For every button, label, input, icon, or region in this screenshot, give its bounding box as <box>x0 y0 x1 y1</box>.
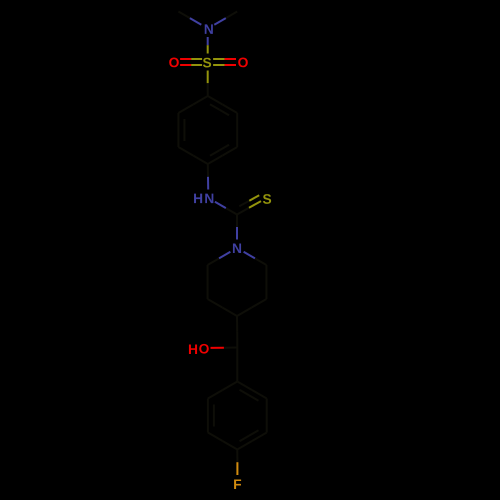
pip edge (C half) <box>252 299 267 308</box>
S=O left (S half) <box>191 58 202 60</box>
atom label O right <box>238 58 248 68</box>
bond CH3-N (N half) <box>214 18 226 25</box>
ring1 inner double (C half) <box>183 119 185 130</box>
bond C-N(pip) (C half) <box>236 215 238 228</box>
atom label S (thione) <box>263 194 271 204</box>
ring1 edge (C half) <box>223 105 238 114</box>
ring2 inner double (C half) <box>240 436 250 442</box>
atom label HO - H <box>189 344 197 353</box>
pip edge (C half) <box>265 265 267 282</box>
bond HN-C (C half) <box>226 208 237 214</box>
S=O left (O half) <box>180 58 191 60</box>
pip edge (C half) <box>208 299 223 308</box>
ring1 edge (C half) <box>223 147 238 156</box>
bond S-C(ring) (S half) <box>207 71 209 84</box>
ring1 edge (C half) <box>177 130 179 147</box>
ring2 edge (C half) <box>207 416 209 433</box>
ring1 inner double (C half) <box>183 130 185 141</box>
bond CH-ring2 (C half) <box>236 365 238 382</box>
pip edge (C half) <box>265 282 267 299</box>
ring2 inner double (C half) <box>213 416 215 427</box>
ring1 edge (C half) <box>208 156 223 165</box>
ring1 edge (C half) <box>193 156 208 165</box>
pip edge (C half) <box>207 282 209 299</box>
atom label S (sulfonyl) <box>203 58 211 68</box>
ring2 edge (C half) <box>252 433 267 442</box>
bond C-OH (O half) <box>211 347 224 349</box>
ring1 inner double (C half) <box>210 104 220 110</box>
ring1 inner double (C half) <box>220 145 230 151</box>
bond CH3-N (C half) <box>178 12 190 19</box>
bond C-F (C half) <box>236 450 238 463</box>
bond C-N(pip) (N half) <box>236 227 238 240</box>
atom label HN - N <box>205 194 213 203</box>
ring2 edge (C half) <box>252 390 267 399</box>
ring2 inner double (C half) <box>240 390 250 396</box>
bond C(ring)-NH (C half) <box>207 164 209 177</box>
bond C-OH (C half) <box>224 347 237 349</box>
pip N-C right (N half) <box>244 252 255 259</box>
S=O right (S half) <box>213 64 225 66</box>
C=S second line (S half) <box>249 195 259 201</box>
ring1 edge (C half) <box>178 105 193 114</box>
bond CH3-N (N half) <box>190 18 201 25</box>
ring2 edge (C half) <box>208 390 223 399</box>
ring2 edge (C half) <box>208 433 223 442</box>
S=O right (O half) <box>225 58 236 60</box>
atom label HO - O <box>199 344 209 354</box>
pip N-C left (N half) <box>219 252 230 259</box>
pip edge (C half) <box>207 265 209 282</box>
ring2 edge (C half) <box>266 416 268 433</box>
bond C-F (F half) <box>236 462 238 475</box>
pip N-C left (C half) <box>208 258 219 265</box>
atom label HN - H <box>194 194 202 203</box>
ring2 edge (C half) <box>207 399 209 416</box>
S=O left (O half) <box>180 64 191 66</box>
ring1 inner double (C half) <box>220 110 230 116</box>
ring2 edge (C half) <box>237 382 252 391</box>
ring1 edge (C half) <box>178 147 193 156</box>
ring2 inner double (C half) <box>249 430 259 436</box>
atom label O left <box>169 58 179 68</box>
C=S second line (C half) <box>239 201 249 207</box>
pip N-C right (C half) <box>255 258 266 265</box>
bond CH3-N (C half) <box>226 12 237 19</box>
ring1 edge (C half) <box>193 96 208 105</box>
atom label F <box>234 479 241 488</box>
atom label N (piperidine) <box>233 243 241 252</box>
ring2 edge (C half) <box>223 441 238 450</box>
ring1 edge (C half) <box>236 113 238 130</box>
ring1 edge (C half) <box>177 113 179 130</box>
S=O right (O half) <box>225 64 236 66</box>
S=O right (S half) <box>213 58 225 60</box>
ring2 edge (C half) <box>223 382 238 391</box>
pip edge (C half) <box>222 308 237 317</box>
bond C(ring)-NH (N half) <box>207 177 209 190</box>
S=O left (S half) <box>191 64 202 66</box>
ring2 inner double (C half) <box>249 395 259 401</box>
atom label N (dimethylamino) <box>205 24 213 33</box>
bond S-C(ring) (C half) <box>207 83 209 96</box>
pip edge (C half) <box>237 308 252 317</box>
ring1 edge (C half) <box>236 130 238 147</box>
ring2 edge (C half) <box>237 441 252 450</box>
ring2 inner double (C half) <box>213 405 215 416</box>
bond HN-C (N half) <box>215 202 226 208</box>
bond N-S (S half) <box>207 45 209 53</box>
C=S main (C half) <box>237 208 249 215</box>
ring2 edge (C half) <box>266 399 268 416</box>
bond pip-CH (C half) <box>236 316 238 332</box>
ring1 inner double (C half) <box>210 150 220 156</box>
bond pip-CH (C half) <box>236 332 238 348</box>
ring1 edge (C half) <box>208 96 223 105</box>
bond N-S (N half) <box>207 37 209 45</box>
C=S main (S half) <box>249 201 261 208</box>
bond CH-ring2 (C half) <box>236 348 238 365</box>
